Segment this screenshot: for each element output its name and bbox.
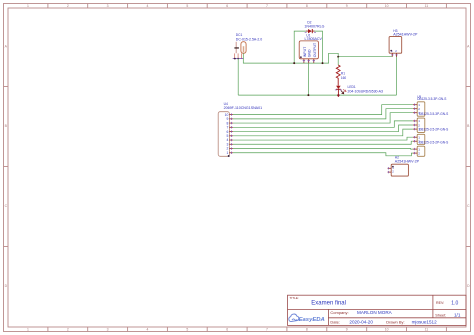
wire U4 pin10 to block pin (233, 105, 413, 115)
svg-text:204-10SURD/S530-A3: 204-10SURD/S530-A3 (348, 89, 383, 93)
svg-text:5: 5 (186, 4, 188, 8)
svg-text:8: 8 (306, 4, 308, 8)
node output junction (337, 56, 339, 58)
svg-text:1.0: 1.0 (451, 301, 458, 307)
wire U4 pin5 to block pin (233, 129, 413, 136)
svg-text:DB125-3.5-3P-GN-S: DB125-3.5-3P-GN-S (417, 97, 446, 101)
svg-text:6: 6 (226, 328, 228, 332)
svg-text:11: 11 (425, 328, 429, 332)
svg-text:1/1: 1/1 (454, 313, 461, 318)
node diode-in junction (293, 62, 295, 64)
regulator U1 body (299, 41, 318, 59)
wire U4 pin8 to block pin (233, 113, 413, 123)
svg-text:R1: R1 (341, 71, 345, 75)
diode D2 pin stubs (306, 30, 308, 32)
svg-text:INPUT: INPUT (303, 46, 307, 57)
terminal block DB125-3.5-2P-GN-S body (417, 146, 425, 156)
regulator U1 pins (300, 56, 315, 63)
svg-text:10: 10 (385, 328, 389, 332)
svg-text:DB125-3.5-2P-GN-S: DB125-3.5-2P-GN-S (419, 128, 448, 132)
svg-text:MARLON MORA: MARLON MORA (357, 310, 393, 315)
svg-text:DB125-3.5-2P-GN-S: DB125-3.5-2P-GN-S (419, 141, 448, 145)
title block grid (288, 295, 467, 325)
svg-text:Date:: Date: (330, 319, 340, 324)
wire H3 pin2 down to ground rail (396, 55, 398, 96)
wire U4 pin9 to block pin (233, 109, 413, 119)
terminal block U9 pins (413, 103, 420, 115)
svg-text:10: 10 (385, 4, 389, 8)
svg-text:B: B (5, 124, 8, 128)
svg-text:EasyEDA: EasyEDA (299, 317, 325, 323)
node diode-out junction (322, 62, 324, 64)
svg-text:8: 8 (306, 328, 308, 332)
header H2 pins (388, 166, 395, 174)
svg-text:DC-015-2.5A-2.0: DC-015-2.5A-2.0 (236, 37, 263, 41)
terminal block DB125-3.5-3P-GN-S pins (413, 119, 420, 131)
svg-text:160: 160 (341, 76, 347, 80)
header H3 pins (390, 49, 397, 57)
wire U4 pin1 to block4 pin2 (233, 153, 413, 156)
svg-text:A: A (5, 45, 8, 49)
svg-text:D: D (467, 284, 470, 288)
wire DC1 pin2 to U1 input rail (243, 53, 322, 63)
svg-text:A: A (467, 45, 470, 49)
header H3 body (389, 37, 402, 54)
wire U1 gnd down to rail (307, 63, 309, 95)
frame row ticks (4, 87, 471, 247)
svg-text:GND: GND (307, 49, 311, 57)
svg-text:REV:: REV: (436, 301, 444, 305)
wire output to H3 pin1 (338, 56, 392, 58)
svg-text:11: 11 (425, 4, 429, 8)
svg-text:3: 3 (107, 328, 109, 332)
svg-text:4: 4 (147, 4, 149, 8)
wire U4 pin6 to block pin (233, 125, 413, 132)
wire diode cathode down right (313, 31, 323, 63)
svg-text:L7805ACV: L7805ACV (305, 37, 323, 41)
node gnd rail junction (307, 94, 309, 96)
svg-text:C: C (5, 204, 8, 208)
svg-text:2069F-110CNG1SNA01: 2069F-110CNG1SNA01 (224, 106, 263, 110)
svg-text:1: 1 (227, 151, 229, 155)
svg-text:B: B (467, 124, 470, 128)
regulator U1 pin names INPUT GND OUTPUT (303, 42, 317, 57)
svg-text:7: 7 (266, 4, 268, 8)
svg-text:2020-04-20: 2020-04-20 (349, 319, 373, 324)
svg-text:4: 4 (147, 328, 149, 332)
resistor R1 symbol (337, 57, 339, 65)
svg-text:2: 2 (67, 328, 69, 332)
svg-text:3: 3 (107, 4, 109, 8)
svg-text:C: C (467, 204, 470, 208)
connector U4 pins (225, 113, 233, 157)
wire U4 pin4 to block pin (233, 137, 413, 140)
svg-text:1: 1 (27, 4, 29, 8)
svg-text:A2541HWV-2P: A2541HWV-2P (393, 32, 418, 36)
svg-text:LED1: LED1 (348, 85, 356, 89)
svg-text:2: 2 (67, 4, 69, 8)
wire ground rail (238, 94, 396, 96)
wire DC1 pin1 to ground rail (237, 59, 239, 96)
header H2 body (391, 164, 408, 176)
svg-text:Company:: Company: (330, 310, 348, 315)
terminal block DB125-3.5-3P-GN-S body (417, 118, 425, 132)
wire U4 pin3 to block pin (233, 141, 413, 144)
svg-text:mjosue1512: mjosue1512 (412, 319, 437, 324)
terminal block DB125-3.5-2P-GN-S body (417, 134, 425, 144)
wire U4 pin7 to block pin (233, 121, 413, 127)
svg-text:1N4007RLG: 1N4007RLG (304, 24, 324, 28)
LED LED1 symbol (335, 86, 346, 97)
terminal block DB125-3.5-2P-GN-S pins (413, 136, 420, 144)
EasyEDA logo (289, 314, 299, 322)
wire diode branch up left (294, 31, 308, 63)
svg-text:6: 6 (226, 4, 228, 8)
connector U4 body (218, 112, 229, 157)
terminal block DB125-3.5-2P-GN-S pins (413, 147, 420, 155)
svg-text:TITLE:: TITLE: (290, 296, 299, 300)
svg-text:D: D (5, 284, 8, 288)
svg-text:A2541HWV-2P: A2541HWV-2P (395, 160, 420, 164)
svg-text:9: 9 (346, 328, 348, 332)
wire U4 pin2 to block4 pin1 (233, 148, 413, 151)
svg-text:7: 7 (266, 328, 268, 332)
svg-text:5: 5 (186, 328, 188, 332)
diode D2 symbol (305, 29, 316, 33)
svg-text:OUTPUT: OUTPUT (313, 42, 317, 57)
svg-text:Examen final: Examen final (311, 300, 346, 306)
svg-text:DB125-3.5-3P-GN-S: DB125-3.5-3P-GN-S (419, 112, 448, 116)
svg-text:1: 1 (27, 328, 29, 332)
svg-text:Sheet:: Sheet: (435, 313, 446, 317)
svg-text:9: 9 (346, 4, 348, 8)
svg-text:Drawn By:: Drawn By: (386, 319, 404, 324)
terminal block U9 body (417, 102, 425, 116)
wire U1 output jog (323, 53, 339, 63)
node led rail junction (337, 94, 339, 96)
connector DC1 barrel jack symbol (235, 42, 237, 53)
